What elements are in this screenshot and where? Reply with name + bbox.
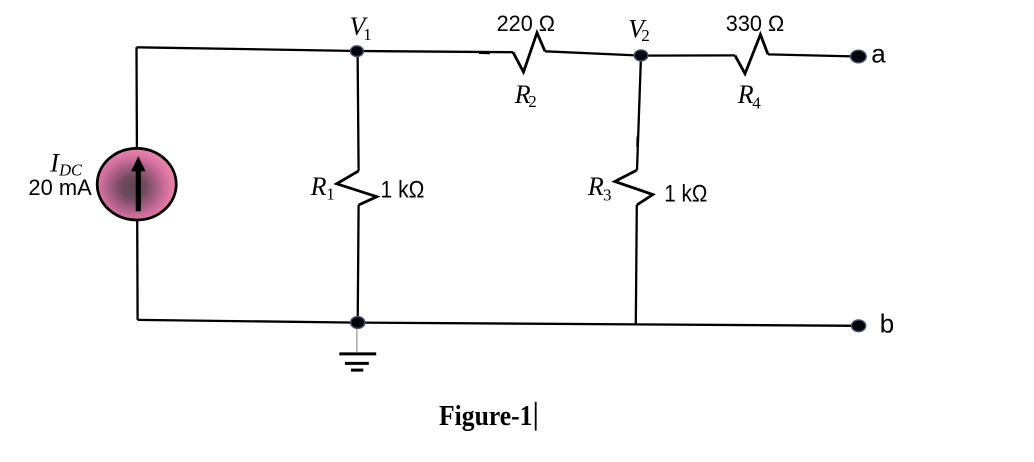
svg-text:330 Ω: 330 Ω: [726, 11, 784, 36]
svg-text:4: 4: [752, 93, 761, 112]
svg-text:Figure-1: Figure-1: [439, 400, 533, 432]
svg-text:a: a: [871, 38, 886, 68]
svg-text:2: 2: [641, 26, 650, 45]
svg-text:20 mA: 20 mA: [28, 175, 92, 200]
svg-text:R: R: [310, 172, 327, 201]
svg-text:1: 1: [326, 185, 335, 204]
svg-text:R: R: [737, 80, 754, 109]
svg-text:2: 2: [528, 92, 537, 111]
svg-text:1 kΩ: 1 kΩ: [381, 176, 425, 203]
svg-text:1: 1: [363, 25, 372, 44]
svg-text:3: 3: [603, 185, 612, 204]
svg-text:b: b: [880, 309, 894, 339]
svg-text:R: R: [587, 172, 604, 201]
svg-text:1 kΩ: 1 kΩ: [664, 180, 707, 207]
svg-text:220 Ω: 220 Ω: [497, 11, 555, 36]
